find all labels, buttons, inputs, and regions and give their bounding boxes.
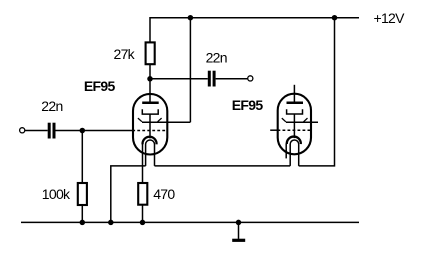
tube V2 EF95 (heater only) — [270, 85, 318, 166]
terminal: output (open circle) — [248, 76, 253, 81]
anode bar V1 — [142, 102, 159, 105]
cathode arc V2 — [287, 137, 301, 145]
resistor R2 100k (grid leak) — [78, 183, 87, 205]
wire: screen-grid supply drop — [189, 18, 191, 123]
wire: heater return to ground — [111, 166, 146, 223]
wire: ground bottom rail — [21, 221, 359, 223]
svg-text:27k: 27k — [114, 46, 136, 62]
wire: +12V right drop to heater chain — [299, 18, 335, 166]
wire: R3 to ground rail — [142, 205, 144, 223]
wire: +12V top rail with drop to R1 — [150, 18, 359, 43]
suppressor grid cup V1 — [142, 109, 158, 114]
node: dot R2 to rail — [80, 220, 86, 226]
wire: grid node down to R2 — [81, 131, 83, 184]
node: junction dot top rail to g2 drop — [188, 15, 194, 21]
tube V1 EF95 — [132, 94, 190, 166]
wire: R2 to ground rail — [81, 205, 83, 222]
wire: cathode of V1 down to R3 — [142, 144, 144, 183]
heater V1 — [146, 140, 155, 166]
wire: anode to output capacitor — [150, 78, 208, 80]
node: grid junction dot — [80, 128, 86, 134]
svg-text:470: 470 — [153, 186, 175, 202]
anode bar V2 — [287, 101, 304, 104]
suppressor grid cup V2 — [287, 109, 303, 114]
control grid dashed V1 — [132, 130, 167, 132]
node: anode junction dot — [147, 76, 153, 82]
svg-text:100k: 100k — [42, 186, 71, 202]
wire: heater series link V1 to V2 — [155, 165, 291, 167]
control grid stub V2 — [270, 129, 277, 131]
envelope V1 — [133, 94, 167, 155]
screen grid line V1 (to supply drop) — [142, 121, 190, 123]
control grid dashed V2 — [278, 129, 312, 131]
screen grid tick right V2 — [304, 118, 308, 122]
screen grid stub V2 — [286, 121, 318, 123]
wire: anode lead from R1 into V1 — [149, 65, 151, 102]
node: dot R3 to rail — [140, 220, 146, 226]
svg-text:22n: 22n — [41, 98, 62, 114]
suppressor-to-cathode stem V2 — [293, 114, 295, 138]
wire: C2 to output terminal — [216, 78, 248, 80]
suppressor-to-cathode stem V1 — [149, 114, 151, 138]
wire: input terminal to C1 — [25, 130, 48, 132]
cathode arc V1 — [143, 137, 157, 145]
node: dot ground symbol — [236, 220, 242, 226]
node: dot heater return to rail — [108, 220, 114, 226]
ground — [232, 222, 245, 240]
wire: C1 to grid of V1 — [56, 130, 133, 132]
resistor R1 27k (anode load) — [146, 42, 155, 64]
anode stub V2 — [293, 85, 295, 102]
svg-text:EF95: EF95 — [232, 97, 264, 113]
svg-text:EF95: EF95 — [84, 78, 116, 94]
envelope V2 — [278, 94, 311, 155]
heater V2 — [290, 140, 299, 166]
resistor R3 470 (cathode) — [138, 183, 147, 205]
screen grid tick left V1 — [138, 118, 142, 122]
svg-text:+12V: +12V — [374, 10, 406, 26]
terminal: input (open circle) — [20, 128, 25, 133]
svg-text:22n: 22n — [206, 49, 227, 65]
screen grid tick left V2 — [282, 118, 286, 122]
capacitor C1 22n (input coupling) — [48, 123, 56, 139]
node: junction dot top rail to heater rail — [332, 15, 338, 21]
screen grid tick right V1 — [158, 118, 162, 122]
cathode stub V2 — [285, 143, 287, 158]
capacitor C2 22n (output coupling) — [208, 71, 216, 87]
